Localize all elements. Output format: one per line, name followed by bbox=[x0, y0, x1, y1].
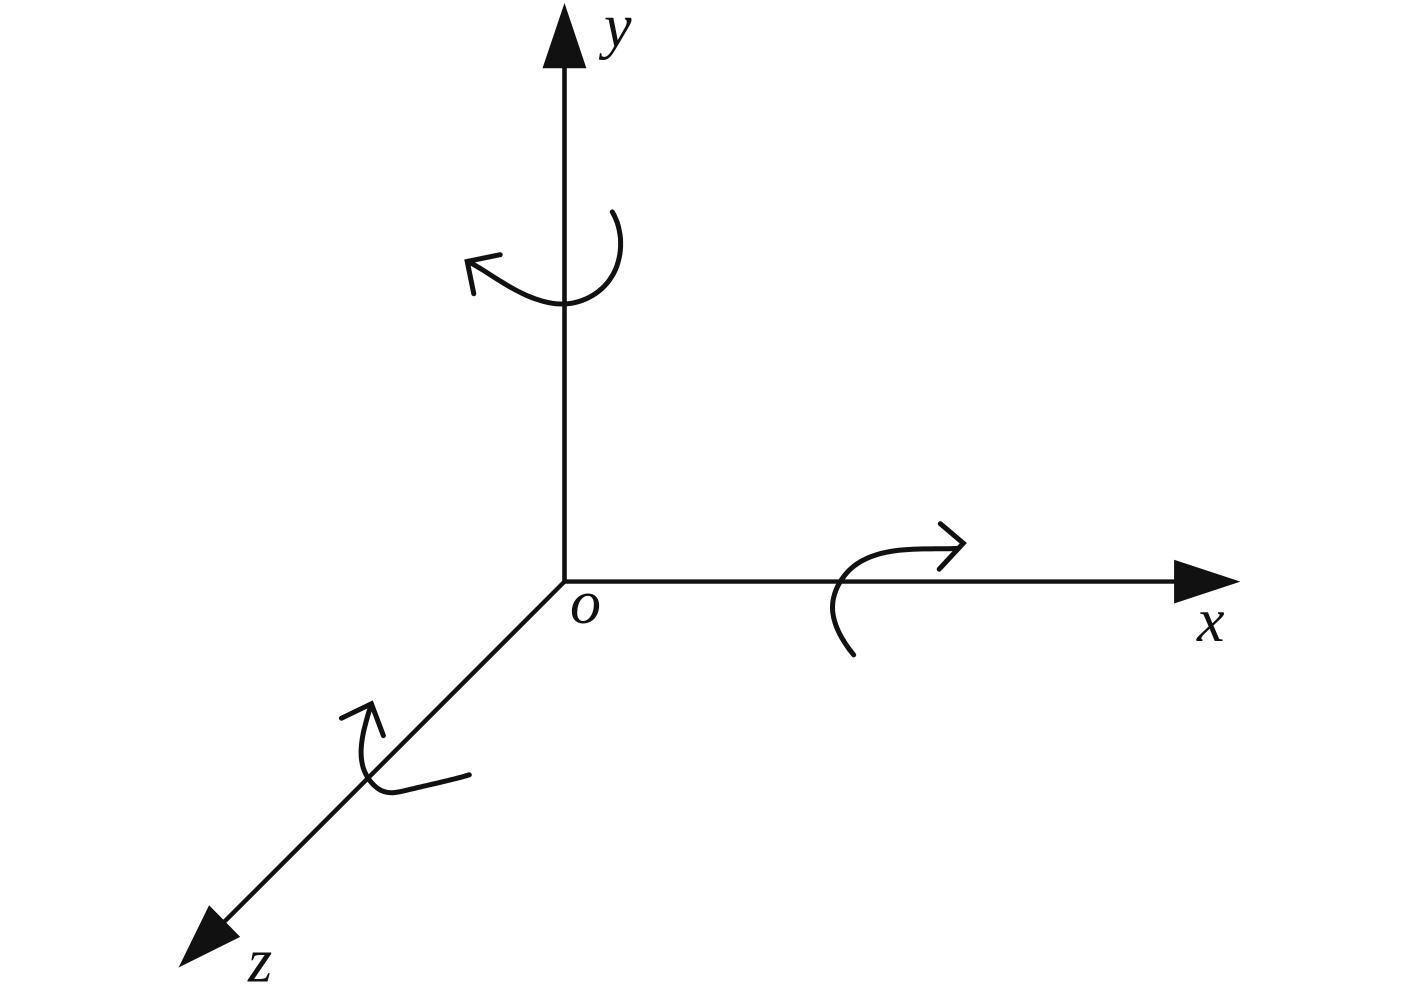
y-axis line bbox=[562, 64, 567, 582]
svg-text:y: y bbox=[598, 0, 632, 61]
rotation arrowhead around y-axis bbox=[467, 255, 500, 294]
rotation arrowhead around x-axis bbox=[939, 524, 963, 570]
x-axis line bbox=[563, 579, 1178, 583]
svg-text:o: o bbox=[570, 569, 601, 637]
rotation arrow arc around x-axis bbox=[833, 548, 959, 655]
rotation arrowhead around z-axis bbox=[341, 704, 383, 736]
z-axis arrowhead bbox=[179, 905, 241, 967]
y-axis arrowhead bbox=[543, 3, 587, 68]
x-axis arrowhead bbox=[1174, 560, 1240, 604]
svg-text:x: x bbox=[1196, 587, 1225, 655]
rotation arrow arc around y-axis bbox=[468, 212, 621, 304]
rotation arrow arc around z-axis bbox=[361, 704, 469, 793]
z-axis line bbox=[224, 580, 567, 923]
svg-text:z: z bbox=[247, 928, 272, 996]
